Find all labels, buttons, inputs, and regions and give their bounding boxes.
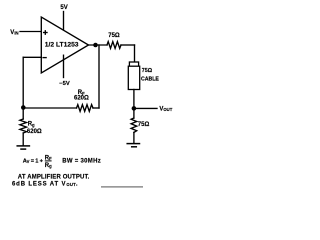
svg-text:1/2 LT1253: 1/2 LT1253 xyxy=(45,41,79,48)
svg-text:AV = 1 +: AV = 1 + xyxy=(23,158,44,164)
svg-text:5V: 5V xyxy=(60,5,67,11)
svg-text:AT AMPLIFIER OUTPUT.: AT AMPLIFIER OUTPUT. xyxy=(18,175,90,181)
svg-text:CABLE: CABLE xyxy=(141,76,159,82)
svg-text:75Ω: 75Ω xyxy=(142,68,153,74)
svg-text:6dB LESS AT VOUT.: 6dB LESS AT VOUT. xyxy=(12,181,78,187)
svg-text:620Ω: 620Ω xyxy=(27,129,42,135)
svg-text:VIN: VIN xyxy=(10,30,18,36)
svg-text:75Ω: 75Ω xyxy=(138,122,150,128)
svg-text:−5V: −5V xyxy=(59,81,70,87)
svg-text:BW = 30MHz: BW = 30MHz xyxy=(62,159,101,165)
svg-text:620Ω: 620Ω xyxy=(74,96,89,102)
svg-text:Rg: Rg xyxy=(45,163,52,169)
svg-text:Rg: Rg xyxy=(28,122,35,128)
svg-text:75Ω: 75Ω xyxy=(108,33,120,39)
svg-text:VOUT: VOUT xyxy=(159,106,172,112)
